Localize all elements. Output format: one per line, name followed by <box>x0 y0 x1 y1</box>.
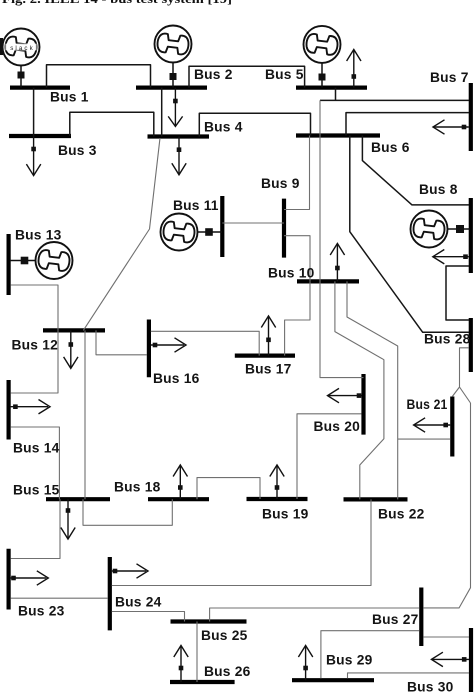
branch 27-29 <box>321 631 419 679</box>
svg-text:Bus 12: Bus 12 <box>12 338 59 353</box>
branch 6-9 <box>284 136 310 210</box>
svg-text:Bus 25: Bus 25 <box>201 628 248 643</box>
branch 12-15 <box>84 330 86 499</box>
bus 15 <box>46 497 110 501</box>
load bus 17 (up arrow) <box>261 316 275 356</box>
branch 4-12 <box>83 138 160 330</box>
bus 5 <box>296 85 367 89</box>
load bus 16 (right arrow) <box>151 338 186 352</box>
load bus 26 (up arrow) <box>174 646 188 683</box>
bus 29 <box>292 678 374 682</box>
svg-text:Bus 27: Bus 27 <box>372 612 419 627</box>
bus 1 <box>10 85 70 89</box>
branch 15-23 <box>11 499 60 558</box>
svg-text:slack: slack <box>10 45 35 52</box>
generator G13 (bus 13) <box>10 242 73 279</box>
svg-text:Fig. 2. IEEE 14 - bus test sys: Fig. 2. IEEE 14 - bus test system [19] <box>2 0 232 6</box>
bus 11 <box>220 196 224 257</box>
load bus 19 (up arrow) <box>270 465 284 499</box>
svg-text:Bus 23: Bus 23 <box>18 604 65 619</box>
branch 4-6 <box>199 113 310 136</box>
bus 21 <box>450 397 454 457</box>
bus 10 <box>297 279 359 283</box>
bus 27 <box>419 588 423 647</box>
svg-text:Bus 10: Bus 10 <box>268 266 315 281</box>
load bus 5 (up arrow) <box>347 50 361 88</box>
svg-text:Bus 17: Bus 17 <box>245 362 292 377</box>
generator G11 (bus 11) <box>161 214 223 251</box>
bus 30 <box>469 628 473 692</box>
branch 19-20 <box>297 414 362 499</box>
svg-text:Bus 8: Bus 8 <box>419 182 458 197</box>
branch 22-24 <box>112 499 371 585</box>
branch 6-10 / 10-20 <box>320 100 364 377</box>
branch 1-2 <box>47 65 151 88</box>
branch 24-25 <box>112 612 185 622</box>
branch 10-22 <box>335 281 384 499</box>
svg-text:Bus 21: Bus 21 <box>407 397 448 412</box>
svg-text:Bus 1: Bus 1 <box>50 90 89 105</box>
bus 16 <box>147 320 151 378</box>
svg-text:Bus 13: Bus 13 <box>15 228 62 243</box>
svg-text:Bus 19: Bus 19 <box>262 507 309 522</box>
load bus 8 (left arrow) <box>433 250 469 264</box>
branch 28-27 <box>423 403 470 608</box>
generator G2 (bus 2) <box>155 26 192 88</box>
svg-text:Bus 3: Bus 3 <box>58 143 97 158</box>
branch 1-3 <box>33 88 35 136</box>
svg-text:Bus 29: Bus 29 <box>326 653 373 668</box>
bus 22 <box>344 497 408 501</box>
svg-text:Bus 15: Bus 15 <box>13 483 60 498</box>
load bus 30 (left arrow) <box>431 652 469 666</box>
svg-text:Bus 14: Bus 14 <box>13 441 60 456</box>
bus 6 <box>296 133 380 137</box>
branch 25-26 <box>196 622 198 683</box>
bus 7 <box>469 83 473 151</box>
bus 26 <box>170 680 235 684</box>
branch 2-4 <box>161 88 163 137</box>
bus 13 <box>7 234 11 295</box>
load bus 10 (up arrow) <box>330 244 344 282</box>
bus 25 <box>171 619 247 623</box>
load bus 4 (down arrow) <box>172 137 186 175</box>
load bus 2 (down arrow) <box>168 88 182 127</box>
svg-text:Bus 11: Bus 11 <box>173 198 219 213</box>
stray cropped mark at left edge <box>0 38 3 55</box>
branch 12-14 <box>11 330 58 393</box>
bus 17 <box>235 354 295 358</box>
svg-text:Bus 4: Bus 4 <box>204 120 243 135</box>
svg-text:Bus 20: Bus 20 <box>314 419 361 434</box>
svg-text:Bus 7: Bus 7 <box>430 70 469 85</box>
branch 5-7 <box>320 88 469 101</box>
svg-text:Bus 5: Bus 5 <box>265 67 304 82</box>
generator slack (bus 1) <box>3 29 40 88</box>
branch 21-22 <box>398 438 451 440</box>
load bus 23 (right arrow) <box>11 571 49 585</box>
branch 10-17 <box>285 281 310 355</box>
branch 15-18 <box>83 499 172 525</box>
svg-text:Bus 9: Bus 9 <box>261 176 300 191</box>
bus 12 <box>43 328 105 332</box>
load bus 24 (right arrow) <box>112 564 148 578</box>
branch 3-4 <box>70 112 154 136</box>
bus 4 <box>148 134 210 138</box>
generator G8 (bus 8) <box>411 211 471 248</box>
svg-text:Bus 28: Bus 28 <box>424 332 471 347</box>
svg-text:Bus 16: Bus 16 <box>153 371 200 386</box>
load bus 7 (left arrow) <box>433 120 469 134</box>
load bus 15 (down arrow) <box>61 499 75 539</box>
branch 2-5 <box>189 66 305 87</box>
svg-text:Bus 26: Bus 26 <box>204 664 251 679</box>
branch 9-10 <box>284 236 310 282</box>
svg-text:Bus 2: Bus 2 <box>194 67 233 82</box>
generator G5 (bus 5) <box>304 26 341 88</box>
branch 10-21 <box>347 281 398 499</box>
branch 12-16 <box>96 330 147 354</box>
load bus 12 (down arrow) <box>64 330 78 368</box>
bus 14 <box>7 380 11 440</box>
branch 23-24 <box>11 597 108 599</box>
svg-text:Bus 24: Bus 24 <box>115 595 162 610</box>
load bus 14 (right arrow) <box>11 400 50 414</box>
bus 24 <box>108 557 112 630</box>
load bus 21 (left arrow) <box>414 418 451 432</box>
branch 14-15 <box>11 427 60 499</box>
branch 25-27 <box>210 608 420 622</box>
bus 2 <box>136 85 207 89</box>
branch 18-19 <box>197 478 260 500</box>
branch 9-11 <box>222 222 284 224</box>
branch 6-7 <box>346 113 469 136</box>
branch 8-28 <box>446 266 469 320</box>
branch 6-28 <box>350 136 469 333</box>
bus 9 <box>282 199 286 258</box>
branch 16-17 <box>151 331 259 355</box>
load bus 3 (down arrow) <box>26 136 40 176</box>
bus 19 <box>247 497 308 501</box>
svg-text:Bus 30: Bus 30 <box>407 680 454 695</box>
bus 20 <box>361 374 365 435</box>
bus 28 <box>469 318 473 372</box>
svg-text:Bus 18: Bus 18 <box>114 480 161 495</box>
svg-text:Bus 22: Bus 22 <box>378 507 425 522</box>
branch 27-30 <box>423 636 469 638</box>
load bus 29 (up arrow) <box>298 646 312 681</box>
svg-text:Bus 6: Bus 6 <box>371 140 410 155</box>
bus 18 <box>148 497 209 501</box>
load bus 20 (left arrow) <box>328 388 362 402</box>
branch 29-30 <box>348 673 470 678</box>
bus 3 <box>9 134 71 138</box>
branch 6-8 <box>362 136 469 205</box>
bus 8 <box>469 198 473 273</box>
branch 28-21 <box>452 348 470 403</box>
bus 23 <box>7 549 11 610</box>
load bus 18 (up arrow) <box>173 465 187 499</box>
branch 12-13 <box>11 285 58 330</box>
